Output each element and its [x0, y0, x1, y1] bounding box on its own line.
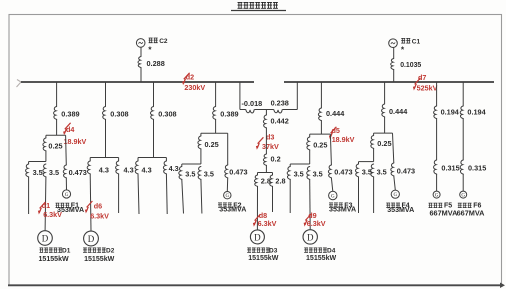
svg-text:230kV: 230kV [184, 83, 205, 92]
reactance 3.5 (open branch) [287, 164, 304, 179]
svg-text:D: D [42, 233, 49, 243]
reactance 3.5 (to D1) [43, 164, 59, 177]
svg-text:0.444: 0.444 [326, 109, 345, 118]
bus end mark [17, 80, 22, 88]
svg-text:667MVA: 667MVA [430, 208, 459, 217]
svg-text:18.9kV: 18.9kV [332, 135, 355, 144]
wire: branch from bus x=215.6 [215, 82, 217, 107]
reactance 3.5 (open branch) [179, 164, 196, 179]
wire: to 4.3 pair junction [153, 120, 155, 158]
reactance 2.8 (left) [254, 173, 270, 187]
svg-text:0.473: 0.473 [334, 168, 352, 177]
reactance -0.018 (tie) [242, 99, 263, 113]
wire: between reactances [436, 119, 438, 161]
wire: down to motor D1 [44, 177, 47, 230]
wire: left bus drop to tie [239, 82, 241, 110]
wire: down to motor D4 [309, 180, 312, 230]
svg-text:0.25: 0.25 [48, 142, 62, 151]
reactance 4.3 (open branch) [163, 158, 178, 174]
svg-text:0.444: 0.444 [389, 107, 408, 116]
svg-text:G: G [225, 194, 229, 199]
wire: branch from bus x=436.6 [436, 82, 438, 106]
svg-text:0.25: 0.25 [313, 140, 327, 149]
fault point d4 18.9kV [63, 123, 86, 146]
svg-text:d4: d4 [66, 125, 74, 134]
svg-text:3.5: 3.5 [362, 167, 372, 176]
wire: node between 0.442 and 0.2 [265, 128, 267, 154]
fault point d1 6.3kV [38, 201, 62, 219]
reactance 0.308 [102, 107, 128, 120]
svg-text:C2: C2 [159, 38, 168, 45]
wire: branch from bus x=105.5 [105, 82, 107, 107]
svg-text:0.25: 0.25 [377, 139, 391, 148]
wire: C2 to bus [140, 47, 142, 56]
svg-text:0.473: 0.473 [397, 167, 415, 176]
fault point d8 6.3kV [253, 211, 277, 228]
wire: right bus drop to tie [296, 82, 298, 110]
svg-text:2.8: 2.8 [275, 176, 285, 185]
svg-text:0.389: 0.389 [220, 109, 238, 118]
reactance 0.25 [198, 133, 219, 149]
wire: to 2.8 pair junction [265, 166, 267, 173]
svg-text:0.315: 0.315 [441, 164, 459, 173]
generator F1 (发电机F1 353MVA) [56, 190, 85, 214]
wire: down to generator F5 [436, 174, 438, 191]
svg-text:353MVA: 353MVA [329, 206, 356, 214]
reactance 0.473 (to F2) [225, 133, 248, 178]
wire: down to generator F6 [462, 174, 464, 191]
fault point d3 37kV [256, 132, 279, 151]
reactance 0.194 [460, 106, 486, 119]
reactance 0.444 [382, 104, 409, 117]
reactance 2.8 (right, open branch) [269, 173, 285, 187]
svg-text:3.5: 3.5 [294, 169, 304, 178]
svg-text:667MVA: 667MVA [457, 208, 486, 217]
fault point d2 230kV [182, 73, 205, 92]
wire: open stub [358, 177, 360, 213]
wire: open stub [289, 180, 291, 214]
svg-text:6.3kV: 6.3kV [90, 211, 109, 220]
svg-text:0.2: 0.2 [271, 155, 281, 164]
reactance 0.288 (C2 source impedance) [138, 57, 165, 83]
title 等效正序阻抗图 [231, 2, 286, 10]
reactance 0.25 [371, 133, 392, 148]
motor D3 (同步电动机D3 15155kW) [247, 230, 279, 262]
wire: branch from bus x=384.6 [384, 82, 386, 104]
generator F3 (发电机F3 353MVA) [329, 191, 356, 213]
svg-text:G: G [461, 194, 465, 199]
reactance 3.5 (open branch) [198, 167, 214, 180]
svg-text:37kV: 37kV [262, 142, 279, 151]
wire: open stub [201, 180, 202, 214]
reactance 0.315 [460, 160, 486, 174]
svg-text:3.5: 3.5 [33, 168, 43, 177]
reactance 0.25 [43, 135, 63, 151]
reactance 0.2 [263, 154, 280, 165]
reactance 0.444 [318, 108, 345, 121]
svg-text:D: D [88, 234, 95, 244]
svg-text:15155kW: 15155kW [248, 255, 279, 262]
reactance 4.3 (open branch) [135, 158, 152, 175]
svg-text:3.5: 3.5 [313, 169, 323, 178]
wire: open stub [118, 174, 120, 213]
wire: to junction [215, 120, 217, 134]
svg-text:0.194: 0.194 [467, 107, 486, 116]
reactance 3.5 (to D4) [307, 167, 323, 180]
generator F6 (发电机F6 667MVA) [457, 191, 486, 217]
wire: C1 to bus [393, 48, 395, 59]
fault point d9 6.3kV [304, 211, 326, 228]
source C1 (系统C1) [389, 38, 421, 54]
svg-text:0.389: 0.389 [61, 109, 79, 118]
svg-text:4.3: 4.3 [169, 164, 179, 173]
fault point d6 6.3kV [85, 201, 109, 220]
svg-text:C1: C1 [412, 38, 421, 45]
wire: open stub [182, 180, 184, 214]
svg-text:D: D [254, 232, 261, 242]
reactance 0.442 [263, 115, 288, 128]
svg-text:d2: d2 [186, 73, 194, 82]
reactance 0.389 [213, 107, 239, 120]
reactance 3.5 (open branch) [26, 162, 43, 177]
node d4 junction [46, 134, 66, 136]
svg-text:0.315: 0.315 [468, 164, 486, 173]
svg-text:18.9kV: 18.9kV [64, 137, 87, 146]
reactance 0.473 (to F4) [391, 133, 415, 176]
reactance 0.315 [434, 160, 460, 174]
source C2 (系统C2) [136, 38, 167, 55]
svg-text:d1: d1 [42, 201, 50, 210]
svg-text:0.288: 0.288 [147, 59, 165, 68]
svg-text:525kV: 525kV [417, 83, 438, 92]
wire: to d4 junction [56, 120, 58, 136]
wire: down to generator F1 [65, 178, 67, 190]
reactance 3.5 (open branch) [371, 164, 387, 177]
wire: left 230kV bus [21, 81, 254, 83]
svg-text:15155kW: 15155kW [306, 255, 337, 262]
wire: branch from bus x=463.2 [462, 82, 464, 106]
svg-text:G: G [435, 194, 439, 199]
svg-text:0.473: 0.473 [69, 168, 87, 177]
reactance 0.473 (to F3) [328, 134, 352, 178]
svg-text:0.442: 0.442 [271, 117, 289, 126]
svg-text:353MVA: 353MVA [57, 206, 84, 214]
svg-text:D3: D3 [269, 247, 278, 254]
wire: open stub [165, 174, 168, 214]
generator F2 (发电机F2 353MVA) [218, 192, 246, 214]
svg-text:0.238: 0.238 [271, 99, 289, 108]
wire: open stub [28, 177, 30, 214]
reactance 0.1035 (C1 source impedance) [391, 59, 422, 83]
wire: branch from bus x=321.4 [320, 82, 322, 108]
svg-text:-0.018: -0.018 [242, 99, 263, 108]
svg-text:0.308: 0.308 [110, 109, 128, 118]
svg-text:d3: d3 [266, 132, 274, 141]
svg-text:d6: d6 [94, 202, 102, 211]
reactance 4.3 (open branch) [116, 158, 134, 175]
wire: tie line [240, 109, 246, 111]
svg-text:G: G [331, 194, 335, 199]
wire: branch from bus x=153.5 [153, 82, 155, 107]
wire: to 3.5 pair junction [373, 149, 375, 162]
svg-text:0.308: 0.308 [158, 109, 176, 118]
svg-text:D: D [307, 232, 314, 242]
svg-text:4.3: 4.3 [142, 166, 152, 175]
svg-text:0.473: 0.473 [229, 168, 247, 177]
svg-text:d5: d5 [332, 126, 340, 135]
svg-text:D4: D4 [327, 247, 336, 254]
wire: down to motor D2 [89, 174, 92, 231]
wire: open stub [138, 174, 139, 214]
reactance 3.5 (open branch) [355, 162, 371, 177]
node d5 junction [310, 133, 331, 135]
wire: down to generator F3 [331, 178, 332, 191]
svg-text:15155kW: 15155kW [39, 256, 70, 263]
node B6 junction [374, 132, 393, 134]
svg-text:3.5: 3.5 [204, 169, 214, 178]
svg-text:0.194: 0.194 [441, 107, 460, 116]
wire: to 3.5 pair junction [200, 149, 202, 164]
reactance 0.473 (to F1) [63, 135, 87, 178]
svg-text:4.3: 4.3 [124, 166, 134, 175]
wire: to d5 junction [320, 121, 322, 135]
wire: open stub [272, 187, 274, 213]
wire: tie junction down [265, 110, 267, 116]
reactance 0.194 [434, 106, 460, 119]
motor D2 (同步电动机D2 15155kW) [83, 231, 115, 263]
svg-text:D2: D2 [106, 247, 115, 254]
reactance 0.389 [54, 107, 80, 120]
generator F4 (发电机F4 353MVA) [386, 190, 414, 214]
fault point d7 525kV [413, 73, 438, 92]
svg-text:3.5: 3.5 [49, 168, 59, 177]
svg-text:D1: D1 [62, 247, 71, 254]
svg-text:6.3kV: 6.3kV [307, 219, 326, 228]
svg-text:d7: d7 [418, 73, 426, 82]
wire: down to generator F4 [394, 176, 396, 190]
reactance 4.3 (to D2) [87, 158, 109, 175]
wire: to 3.5 pair junction [309, 150, 311, 164]
svg-text:3.5: 3.5 [185, 169, 195, 178]
wire: between reactances [462, 119, 464, 161]
svg-text:353MVA: 353MVA [387, 206, 414, 214]
svg-text:6.3kV: 6.3kV [258, 219, 277, 228]
reactance 0.308 [150, 107, 176, 120]
wire: open stub [373, 177, 375, 213]
svg-text:G: G [393, 193, 397, 198]
wire: down to motor D3 [256, 187, 258, 230]
wire: to 3.5 pair junction [45, 151, 47, 162]
fault point d5 18.9kV [329, 126, 355, 144]
svg-text:4.3: 4.3 [99, 166, 109, 175]
motor D4 (同步电动机D4 15155kW) [303, 230, 337, 262]
wire: to junction [384, 117, 386, 133]
wire: to 4.3 pair junction [105, 120, 107, 158]
svg-text:0.25: 0.25 [205, 140, 219, 149]
wire: branch from bus x=56.6 [56, 82, 58, 107]
reactance 0.238 (tie) [271, 99, 289, 113]
node B4 junction [201, 132, 228, 134]
wire: right 525kV bus [284, 81, 494, 83]
svg-text:G: G [65, 193, 69, 198]
wire: down to generator F2 [226, 178, 228, 192]
generator F5 (发电机F5 667MVA) [429, 191, 459, 217]
svg-text:15155kW: 15155kW [84, 256, 115, 263]
reactance 0.25 [307, 134, 328, 150]
motor D1 (同步电动机D1 15155kW) [38, 231, 71, 263]
svg-text:3.5: 3.5 [377, 167, 387, 176]
svg-text:353MVA: 353MVA [219, 206, 246, 214]
svg-text:0.1035: 0.1035 [400, 62, 421, 69]
